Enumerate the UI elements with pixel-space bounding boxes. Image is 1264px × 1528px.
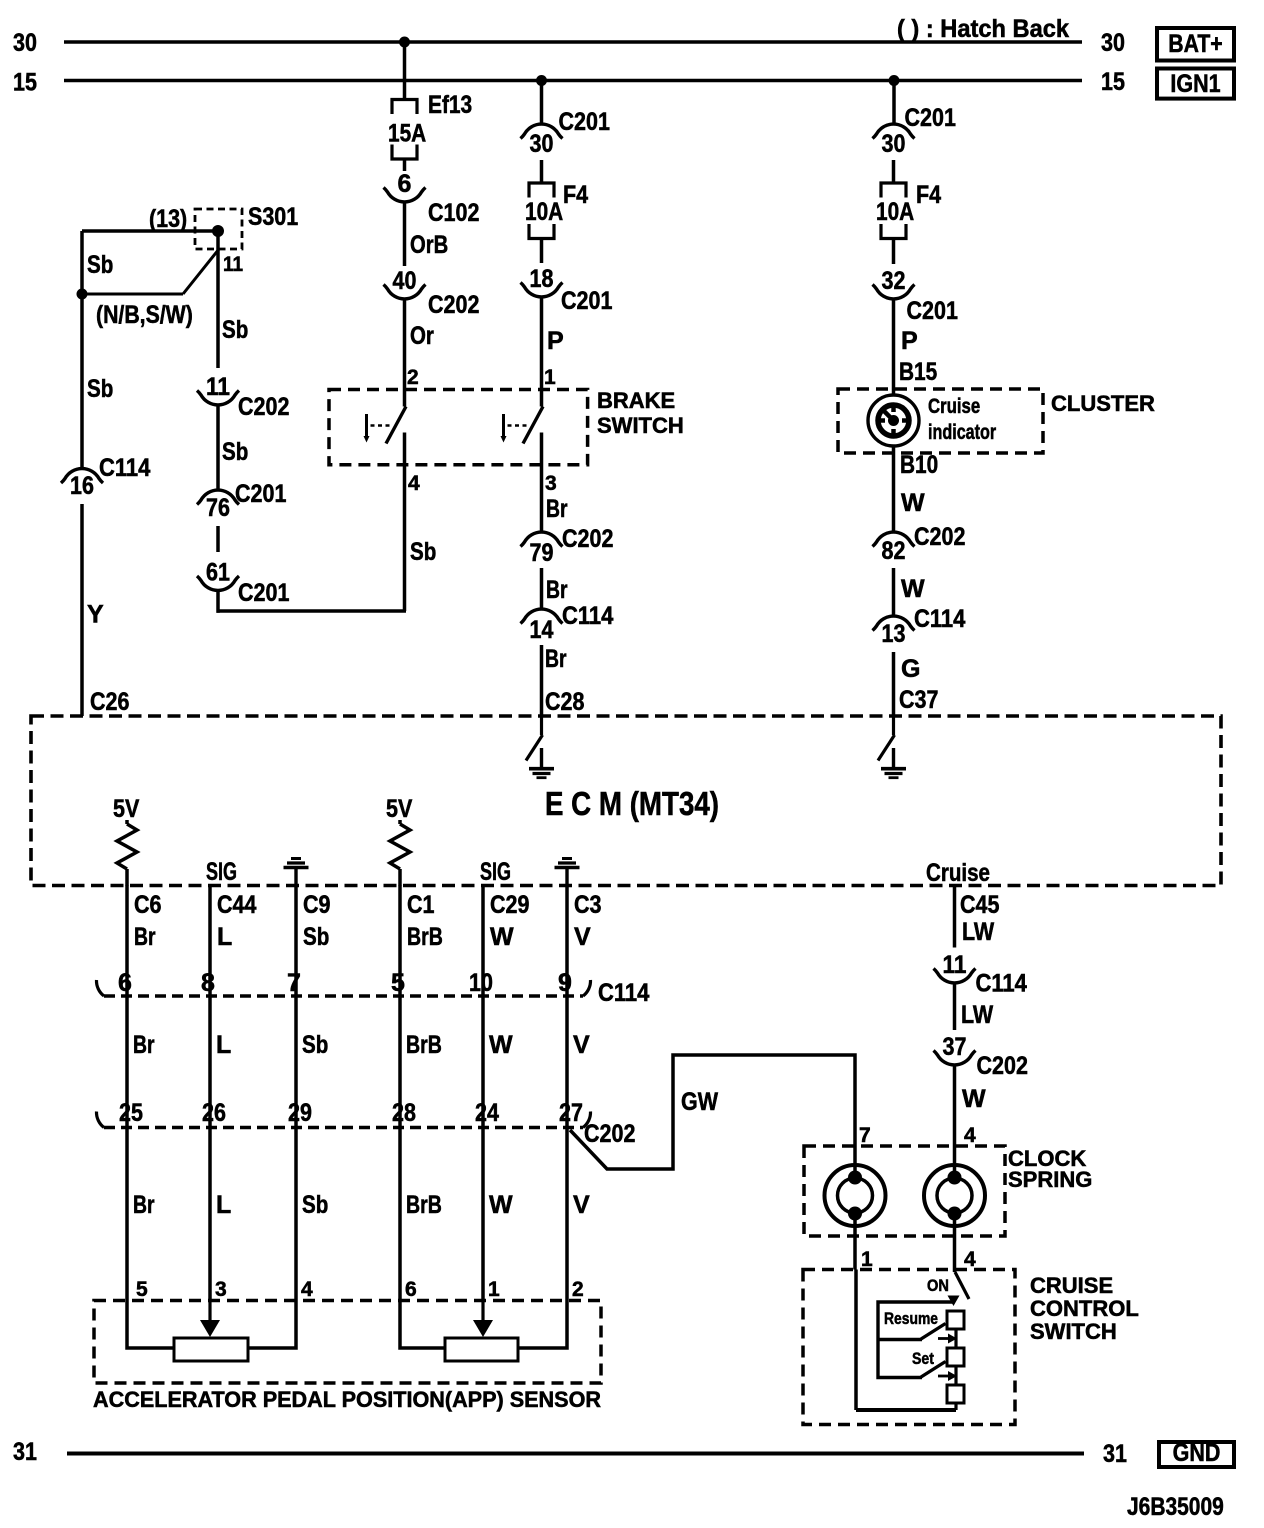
svg-text:Br: Br xyxy=(134,923,156,951)
svg-text:Ef13: Ef13 xyxy=(428,91,472,119)
svg-text:10A: 10A xyxy=(525,198,563,226)
connector C202 pin 79 xyxy=(521,525,614,567)
svg-text:IGN1: IGN1 xyxy=(1170,70,1220,98)
GND terminal box xyxy=(1159,1439,1234,1467)
svg-text:C201: C201 xyxy=(559,108,610,136)
svg-text:29: 29 xyxy=(288,1099,312,1127)
svg-text:C202: C202 xyxy=(428,291,479,319)
wire G C114 to ECM pin C37 xyxy=(894,652,939,716)
APP potentiometer 2 xyxy=(400,1301,567,1362)
svg-text:30: 30 xyxy=(1101,29,1125,57)
cruise control switch box xyxy=(803,1270,1139,1425)
wire W C202 to clock spring pin 4 xyxy=(955,1065,987,1177)
svg-text:4: 4 xyxy=(408,472,420,495)
connector C102 pin 6 xyxy=(384,170,480,227)
svg-text:F4: F4 xyxy=(916,181,941,209)
connector C114 row xyxy=(96,969,649,1007)
svg-text:C202: C202 xyxy=(914,523,965,551)
svg-text:3: 3 xyxy=(215,1278,227,1301)
svg-text:LW: LW xyxy=(961,1001,994,1029)
svg-text:10A: 10A xyxy=(876,198,914,226)
svg-text:CONTROL: CONTROL xyxy=(1030,1296,1139,1321)
svg-text:Sb: Sb xyxy=(222,316,248,344)
svg-text:V: V xyxy=(573,1191,590,1219)
svg-text:B10: B10 xyxy=(900,451,938,479)
svg-text:SWITCH: SWITCH xyxy=(1030,1319,1117,1344)
junction on left Sb wire xyxy=(77,289,88,300)
svg-text:C201: C201 xyxy=(561,287,612,315)
wires C202 to APP sensor with colours xyxy=(127,1128,590,1301)
contact box 1 xyxy=(947,1311,964,1329)
svg-text:8: 8 xyxy=(201,969,215,997)
svg-text:BrB: BrB xyxy=(406,1031,442,1059)
svg-text:C114: C114 xyxy=(562,602,613,630)
svg-text:(13): (13) xyxy=(149,205,187,233)
brake switch contact (pin 2-4) xyxy=(364,407,407,444)
svg-text:14: 14 xyxy=(530,616,554,644)
APP potentiometer 1 xyxy=(127,1301,296,1362)
wire C201-61 down to pin4 link xyxy=(216,591,220,613)
svg-text:Cruise: Cruise xyxy=(926,859,990,887)
wire P C201 to brake switch pin 1 xyxy=(542,297,564,407)
svg-text:C114: C114 xyxy=(99,454,150,482)
wire fuse Ef13 to connector C102 xyxy=(403,159,407,171)
svg-text:Sb: Sb xyxy=(302,1031,328,1059)
fuse F4 10A (cluster) xyxy=(876,181,941,239)
clock spring pin 7 label xyxy=(859,1124,871,1147)
wire fuse F4 to connector C201 pin32 xyxy=(892,239,896,265)
svg-text:L: L xyxy=(216,1031,231,1059)
5V supply resistor (C1) xyxy=(386,795,413,886)
wire brake switch pin 3 xyxy=(542,433,568,533)
wire Y C114 to ECM pin C26 xyxy=(82,504,129,716)
Set switch blade xyxy=(912,1349,946,1377)
svg-text:SIG: SIG xyxy=(480,858,511,886)
svg-text:V: V xyxy=(574,923,591,951)
svg-text:BRAKE: BRAKE xyxy=(597,388,675,413)
svg-text:C201: C201 xyxy=(235,480,286,508)
svg-text:L: L xyxy=(217,923,232,951)
power rail 15 (IGN1) xyxy=(13,68,1125,97)
wire cluster B10 xyxy=(894,446,939,532)
legend ( ) : Hatch Back xyxy=(897,15,1069,43)
svg-text:7: 7 xyxy=(859,1124,871,1147)
svg-text:15A: 15A xyxy=(388,120,426,148)
connector C114 pin 11 (cruise) xyxy=(934,951,1027,998)
connector C201 pin 32 xyxy=(873,267,958,325)
drawing number J6B35009 xyxy=(1127,1493,1224,1521)
wire clock spring to cruise switch (right) xyxy=(955,1214,977,1272)
junction on rail 15 at brake-switch feed xyxy=(536,75,547,86)
contact box 3 xyxy=(947,1385,964,1403)
svg-text:Cruise: Cruise xyxy=(928,395,980,418)
svg-text:C37: C37 xyxy=(899,686,938,714)
svg-text:C114: C114 xyxy=(976,970,1027,998)
wire pin4 to S301 chain xyxy=(217,609,407,613)
svg-text:11: 11 xyxy=(206,373,230,401)
svg-text:Sb: Sb xyxy=(222,438,248,466)
svg-text:2: 2 xyxy=(407,366,419,389)
wire rail15 to connector C201 xyxy=(540,81,544,125)
contact box 2 xyxy=(947,1348,964,1366)
wire stub C201-76 to C201-61 xyxy=(216,526,220,552)
svg-text:W: W xyxy=(489,1191,513,1219)
svg-text:4: 4 xyxy=(301,1278,313,1301)
svg-text:W: W xyxy=(489,1031,513,1059)
clock spring coil (pin7-1) xyxy=(825,1165,886,1226)
ECM box xyxy=(31,716,1221,886)
svg-text:6: 6 xyxy=(398,170,412,198)
svg-text:6: 6 xyxy=(405,1278,417,1301)
svg-text:W: W xyxy=(962,1085,986,1113)
svg-text:31: 31 xyxy=(13,1438,37,1466)
svg-text:30: 30 xyxy=(13,29,37,57)
svg-text:C29: C29 xyxy=(490,891,529,919)
wire C201 to fuse F4 (cluster) xyxy=(892,160,896,183)
svg-text:Sb: Sb xyxy=(87,251,113,279)
APP sensor box xyxy=(94,1301,601,1384)
svg-text:5V: 5V xyxy=(386,795,413,823)
Cruise label (C45) xyxy=(926,859,990,887)
clock spring coil (pin4-4) xyxy=(924,1165,985,1226)
svg-text:F4: F4 xyxy=(563,181,588,209)
svg-text:C201: C201 xyxy=(905,104,956,132)
svg-text:Sb: Sb xyxy=(410,538,436,566)
svg-text:S301: S301 xyxy=(248,203,298,231)
ON switch blade xyxy=(927,1272,969,1299)
SIG label (C29) xyxy=(480,858,511,886)
connector C202 row xyxy=(96,1099,635,1148)
wire Or C202 to brake switch pin 2 xyxy=(405,299,435,407)
svg-text:C6: C6 xyxy=(134,891,162,919)
svg-text:C45: C45 xyxy=(960,891,999,919)
junction on rail 30 at Ef13 xyxy=(399,37,410,48)
svg-text:(N/B,S/W): (N/B,S/W) xyxy=(96,301,193,329)
svg-text:1: 1 xyxy=(861,1248,873,1271)
svg-text:79: 79 xyxy=(530,539,554,567)
wire brake switch pin 4 xyxy=(405,433,437,612)
svg-text:31: 31 xyxy=(1103,1440,1127,1468)
ON contact marker xyxy=(948,1296,960,1307)
svg-text:Resume: Resume xyxy=(884,1309,938,1328)
brake switch contact (pin 1-3) xyxy=(501,407,544,444)
svg-text:BAT+: BAT+ xyxy=(1168,30,1222,58)
signal ground at C9 xyxy=(284,859,309,888)
IGN1 terminal box xyxy=(1157,69,1234,99)
svg-text:61: 61 xyxy=(206,559,230,587)
svg-text:E C M (MT34): E C M (MT34) xyxy=(545,785,719,822)
fuse F4 10A (brake) xyxy=(525,181,588,239)
splice S301 junction xyxy=(212,225,224,237)
wire Cruise C45 to C114 xyxy=(955,886,1000,948)
svg-text:W: W xyxy=(490,923,514,951)
svg-text:82: 82 xyxy=(882,537,906,565)
svg-text:BrB: BrB xyxy=(407,923,443,951)
svg-text:1: 1 xyxy=(488,1278,500,1301)
svg-text:32: 32 xyxy=(882,267,906,295)
svg-text:GW: GW xyxy=(681,1088,718,1116)
svg-text:3: 3 xyxy=(545,472,557,495)
svg-text:37: 37 xyxy=(943,1033,967,1061)
connector C201 pin 18 xyxy=(521,265,613,315)
wires C114 to C202 with colours xyxy=(127,996,590,1128)
connector C114 pin 16 xyxy=(61,454,150,500)
wire Sb left drop xyxy=(82,231,113,469)
svg-text:24: 24 xyxy=(475,1099,499,1127)
svg-text:Br: Br xyxy=(546,495,568,523)
svg-text:4: 4 xyxy=(964,1248,976,1271)
connector C201 pin 30 xyxy=(521,108,610,158)
svg-text:16: 16 xyxy=(70,472,94,500)
wire OrB C102 to C202 xyxy=(405,202,449,266)
svg-text:Set: Set xyxy=(912,1349,934,1368)
svg-text:Or: Or xyxy=(410,322,434,350)
ground switch at ECM pin C28 xyxy=(526,716,554,778)
brake switch box xyxy=(329,388,684,465)
svg-text:SIG: SIG xyxy=(206,858,237,886)
svg-text:Br: Br xyxy=(546,576,568,604)
cluster box xyxy=(838,389,1155,453)
svg-text:C44: C44 xyxy=(217,891,256,919)
svg-text:C26: C26 xyxy=(90,688,129,716)
svg-text:7: 7 xyxy=(287,969,301,997)
connector C201 pin 61 xyxy=(197,559,289,608)
svg-text:ACCELERATOR PEDAL POSITION(APP: ACCELERATOR PEDAL POSITION(APP) SENSOR xyxy=(93,1387,601,1412)
svg-text:GND: GND xyxy=(1173,1439,1221,1467)
svg-text:26: 26 xyxy=(202,1099,226,1127)
connector C201 pin 76 xyxy=(197,480,286,522)
svg-text:11: 11 xyxy=(943,951,967,979)
Resume switch blade xyxy=(884,1309,946,1339)
svg-text:C201: C201 xyxy=(907,297,958,325)
wiper contact 1 xyxy=(938,1334,957,1344)
svg-text:G: G xyxy=(901,655,920,683)
svg-text:C202: C202 xyxy=(584,1120,635,1148)
connector C202 pin 82 xyxy=(873,523,966,565)
clock spring box xyxy=(804,1146,1092,1236)
junction on rail 15 at cluster feed xyxy=(889,75,900,86)
svg-text:15: 15 xyxy=(1101,68,1125,96)
signal ground at C3 xyxy=(555,859,580,888)
svg-text:Br: Br xyxy=(133,1031,155,1059)
wire GW branch pin27 to clock spring pin 7 xyxy=(570,1055,855,1177)
wiper contact 2 xyxy=(938,1371,957,1381)
svg-text:W: W xyxy=(901,489,925,517)
wire rail30 to fuse Ef13 xyxy=(403,42,407,100)
svg-text:1: 1 xyxy=(544,366,556,389)
svg-text:Y: Y xyxy=(87,601,104,629)
svg-text:SWITCH: SWITCH xyxy=(597,413,684,438)
wire LW C114 to C202 (cruise) xyxy=(955,983,994,1030)
svg-text:4: 4 xyxy=(964,1124,976,1147)
svg-text:indicator: indicator xyxy=(928,421,996,444)
svg-text:18: 18 xyxy=(530,265,554,293)
connector C202 pin 37 xyxy=(934,1033,1028,1080)
svg-text:BrB: BrB xyxy=(406,1191,442,1219)
wire W C202 to C114 (cluster) xyxy=(894,568,926,616)
svg-text:9: 9 xyxy=(558,969,572,997)
svg-text:11: 11 xyxy=(223,253,243,276)
svg-text:6: 6 xyxy=(118,969,132,997)
svg-text:LW: LW xyxy=(962,918,995,946)
svg-text:L: L xyxy=(216,1191,231,1219)
svg-text:30: 30 xyxy=(530,130,554,158)
splice S301 box xyxy=(149,203,298,249)
svg-text:5: 5 xyxy=(391,969,405,997)
svg-text:CLUSTER: CLUSTER xyxy=(1051,391,1155,416)
power rail 30 (BAT+) xyxy=(13,29,1125,57)
wire alternate (N/B,S/W) diagonal xyxy=(82,249,219,329)
svg-text:10: 10 xyxy=(469,969,493,997)
wire Br C114 to ECM pin C28 xyxy=(542,645,585,716)
svg-text:C28: C28 xyxy=(545,688,584,716)
svg-text:15: 15 xyxy=(13,69,37,97)
svg-text:Br: Br xyxy=(133,1191,155,1219)
wire Sb S301 to C202 xyxy=(218,231,248,368)
connector C114 pin 13 xyxy=(873,605,966,648)
svg-text:5: 5 xyxy=(136,1278,148,1301)
connector C202 pin 11 (S301 branch) xyxy=(197,373,289,421)
wire fuse F4 to connector C201 pin18 xyxy=(540,239,544,264)
wire Br C202 to C114 xyxy=(542,568,568,609)
svg-text:Sb: Sb xyxy=(303,923,329,951)
svg-text:2: 2 xyxy=(572,1278,584,1301)
wire S301 top link xyxy=(82,229,218,232)
svg-text:27: 27 xyxy=(559,1099,583,1127)
connector C202 pin 40 xyxy=(384,267,480,319)
switch leg wires xyxy=(856,1270,956,1411)
switch common bracket xyxy=(878,1302,954,1378)
cruise indicator lamp xyxy=(868,395,996,446)
svg-text:76: 76 xyxy=(206,494,230,522)
ground rail 31 xyxy=(13,1438,1127,1468)
APP sensor label xyxy=(93,1387,601,1412)
svg-text:C1: C1 xyxy=(407,891,435,919)
svg-text:OrB: OrB xyxy=(410,231,448,259)
svg-text:P: P xyxy=(901,327,918,355)
fuse Ef13 15A xyxy=(388,91,472,159)
ECM output pins C6 C44 C9 C1 C29 C3 with wire colours xyxy=(127,886,602,997)
SIG label (C44) xyxy=(206,858,237,886)
svg-text:P: P xyxy=(547,327,564,355)
svg-text:B15: B15 xyxy=(899,358,937,386)
svg-text:C102: C102 xyxy=(428,199,479,227)
svg-text:C202: C202 xyxy=(977,1052,1028,1080)
5V supply resistor (C6) xyxy=(113,795,140,886)
svg-text:SPRING: SPRING xyxy=(1008,1167,1092,1192)
wire rail15 to connector C201 (cluster) xyxy=(892,81,896,125)
svg-text:30: 30 xyxy=(882,130,906,158)
svg-text:C202: C202 xyxy=(562,525,613,553)
svg-text:25: 25 xyxy=(119,1099,143,1127)
svg-text:W: W xyxy=(901,575,925,603)
svg-text:C201: C201 xyxy=(238,579,289,607)
svg-text:13: 13 xyxy=(882,620,906,648)
connector C114 pin 14 xyxy=(521,602,614,644)
APP sensor pin numbers 5 3 4 6 1 2 xyxy=(136,1278,584,1301)
svg-text:5V: 5V xyxy=(113,795,140,823)
svg-text:ON: ON xyxy=(927,1276,949,1295)
svg-text:Sb: Sb xyxy=(302,1191,328,1219)
svg-text:J6B35009: J6B35009 xyxy=(1127,1493,1224,1521)
svg-text:40: 40 xyxy=(393,267,417,295)
svg-text:C9: C9 xyxy=(303,891,331,919)
svg-text:28: 28 xyxy=(392,1099,416,1127)
svg-text:V: V xyxy=(573,1031,590,1059)
wire Sb C202 to C201 xyxy=(218,405,248,490)
svg-text:CRUISE: CRUISE xyxy=(1030,1273,1113,1298)
wire clock spring to cruise switch (left) xyxy=(855,1214,873,1271)
svg-text:C3: C3 xyxy=(574,891,602,919)
svg-text:C114: C114 xyxy=(598,979,649,1007)
svg-text:C202: C202 xyxy=(238,393,289,421)
wire C201 to fuse F4 xyxy=(540,160,544,183)
BAT+ terminal box xyxy=(1157,28,1234,61)
svg-text:( ) : Hatch Back: ( ) : Hatch Back xyxy=(897,15,1069,43)
svg-text:Sb: Sb xyxy=(87,375,113,403)
svg-text:Br: Br xyxy=(545,645,567,673)
ground switch at ECM pin C37 xyxy=(878,716,906,778)
wire P C201 to cluster B15 xyxy=(894,299,938,395)
svg-text:C114: C114 xyxy=(914,605,965,633)
connector C201 pin 30 (cluster) xyxy=(873,104,956,158)
